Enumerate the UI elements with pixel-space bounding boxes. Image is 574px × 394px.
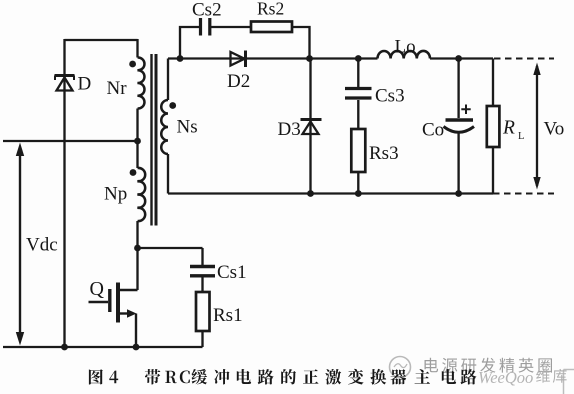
svg-text:Cs3: Cs3 bbox=[375, 86, 405, 107]
svg-text:Vdc: Vdc bbox=[26, 235, 58, 256]
svg-text:Ns: Ns bbox=[177, 117, 198, 138]
svg-text:Rs1: Rs1 bbox=[213, 305, 243, 326]
svg-text:Lo: Lo bbox=[395, 37, 416, 58]
svg-text:Nr: Nr bbox=[107, 78, 128, 99]
svg-text:Cs2: Cs2 bbox=[192, 0, 222, 21]
svg-text:Vo: Vo bbox=[544, 119, 565, 140]
svg-text:Rs2: Rs2 bbox=[257, 0, 284, 19]
svg-text:R: R bbox=[502, 118, 515, 139]
svg-text:Rs3: Rs3 bbox=[369, 143, 399, 164]
svg-text:L: L bbox=[518, 131, 524, 142]
svg-text:D2: D2 bbox=[227, 71, 250, 92]
svg-text:Np: Np bbox=[104, 184, 127, 205]
svg-text:Q: Q bbox=[90, 278, 105, 300]
svg-text:Cs1: Cs1 bbox=[217, 262, 247, 283]
svg-text:Co: Co bbox=[422, 120, 444, 141]
svg-text:D: D bbox=[78, 74, 92, 95]
svg-text:D3: D3 bbox=[278, 119, 301, 140]
